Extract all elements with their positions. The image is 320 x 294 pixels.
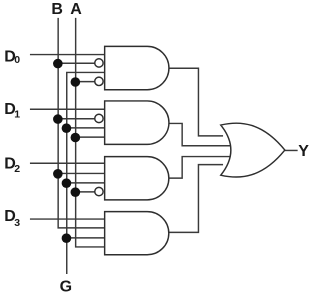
wire B branch to U3 input [58, 172, 104, 174]
svg-text:Y: Y [298, 143, 309, 160]
AND gate U4 [105, 212, 169, 255]
wire U4 output to OR input 4 [169, 165, 223, 233]
junction dot A to U1 [71, 77, 81, 87]
OR gate U5 [221, 123, 285, 177]
wire U3 output to OR input 3 [169, 157, 231, 179]
wire enable line G vertical [67, 72, 105, 274]
wire select line B vertical [58, 18, 104, 228]
junction dot A to U3 [71, 187, 81, 197]
wire A branch to U3 inverted input [76, 191, 95, 193]
wire data input D0 [30, 54, 105, 56]
svg-text:A: A [70, 1, 82, 18]
inverting bubble U2 pin 2 (B) [95, 114, 103, 122]
wire G branch to U2 input [67, 127, 105, 129]
junction dot B to U3 [53, 169, 63, 179]
AND gate U2 [105, 101, 169, 144]
wire G branch to U4 input [67, 237, 105, 239]
inverting bubble U1 pin 4 (A) [95, 77, 103, 85]
wire U2 output to OR input 2 [169, 123, 231, 145]
wire A branch to U2 input [76, 136, 105, 138]
junction dot A to U2 [71, 133, 81, 143]
junction dot G to U3 [62, 178, 72, 188]
junction dot G to U4 [62, 233, 72, 243]
wire U1 output to OR input 1 [169, 68, 223, 136]
AND gate U3 [105, 157, 169, 200]
wire A branch to U1 inverted input [76, 81, 95, 83]
wire B branch to U2 inverted input [58, 118, 95, 120]
AND gate U1 [105, 46, 169, 89]
svg-text:G: G [60, 278, 72, 294]
svg-text:B: B [51, 1, 63, 18]
wire B branch to U1 inverted input [58, 62, 95, 64]
wire select line A vertical [76, 18, 105, 247]
wire G branch to U3 input [67, 182, 105, 184]
wire OR output to Y [285, 149, 298, 151]
wire data input D2 [30, 162, 105, 164]
junction dot B to U2 [53, 114, 63, 124]
wire data input D3 [30, 218, 105, 220]
junction dot G to U2 [62, 123, 72, 133]
wire data input D1 [30, 108, 105, 110]
junction dot B to U1 [53, 59, 63, 69]
inverting bubble U1 pin 2 (B) [95, 59, 103, 67]
inverting bubble U3 pin 4 (A) [95, 187, 103, 195]
